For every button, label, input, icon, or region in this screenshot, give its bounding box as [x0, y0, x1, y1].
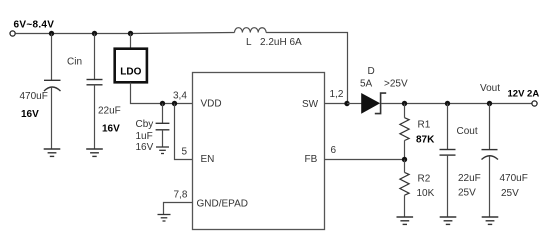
ground for 22uF	[86, 149, 103, 156]
junction 22uF tap	[92, 31, 97, 36]
svg-text:5A: 5A	[360, 79, 373, 90]
junction Cby tap	[160, 101, 165, 106]
junction FB node	[402, 157, 407, 162]
svg-text:R1: R1	[418, 120, 431, 131]
svg-text:16V: 16V	[136, 142, 154, 153]
svg-text:12V 2A: 12V 2A	[508, 88, 540, 99]
svg-text:LDO: LDO	[120, 67, 141, 78]
capacitor 470uF output	[482, 104, 499, 218]
junction SW node	[344, 101, 349, 106]
ground for Cout	[440, 217, 457, 224]
capacitor Cout 22uF	[440, 104, 456, 218]
svg-text:>25V: >25V	[384, 79, 408, 90]
svg-text:470uF: 470uF	[20, 91, 48, 102]
svg-text:3,4: 3,4	[173, 90, 187, 101]
junction divider tap	[402, 101, 407, 106]
junction EN tie	[172, 101, 177, 106]
svg-text:VDD: VDD	[201, 99, 222, 110]
wire EN tie to pin 5	[175, 104, 193, 160]
junction Cout tap	[445, 101, 450, 106]
svg-text:470uF: 470uF	[500, 173, 528, 184]
svg-text:25V: 25V	[458, 188, 476, 199]
svg-text:6V~8.4V: 6V~8.4V	[14, 20, 55, 31]
svg-text:L: L	[246, 37, 252, 48]
svg-text:2.2uH 6A: 2.2uH 6A	[260, 37, 302, 48]
junction 470uF tap	[487, 101, 492, 106]
wire FB pin to divider	[325, 159, 405, 161]
capacitor Cby 1uF	[156, 104, 170, 148]
resistor R2	[400, 160, 409, 218]
wire GND/EPAD	[164, 203, 193, 215]
capacitor Cin 470uF	[44, 34, 61, 150]
node Vout output terminal	[532, 101, 537, 106]
svg-text:Cby: Cby	[136, 119, 154, 130]
junction LDO tap	[128, 31, 133, 36]
capacitor 22uF input	[87, 34, 103, 150]
svg-text:D: D	[368, 66, 375, 77]
wire LDO input	[130, 34, 132, 49]
wire inductor-to-corner	[266, 33, 347, 104]
regulator U2 LDO	[115, 49, 147, 83]
wire SW pin to node	[325, 103, 348, 105]
ground for R2	[397, 217, 414, 224]
svg-text:10K: 10K	[417, 188, 435, 199]
svg-text:25V: 25V	[501, 188, 519, 199]
svg-text:5: 5	[182, 147, 188, 158]
svg-text:22uF: 22uF	[98, 106, 121, 117]
ground for Cin	[44, 149, 61, 156]
svg-text:Cin: Cin	[67, 57, 82, 68]
svg-text:SW: SW	[302, 99, 319, 110]
ground for 470uF	[482, 217, 499, 224]
svg-text:GND/EPAD: GND/EPAD	[197, 199, 249, 210]
inductor L	[235, 28, 267, 33]
svg-text:1uF: 1uF	[136, 131, 153, 142]
resistor R1	[400, 104, 409, 160]
svg-text:EN: EN	[201, 154, 215, 165]
svg-text:7,8: 7,8	[174, 190, 188, 201]
svg-text:16V: 16V	[102, 124, 120, 135]
wire LDO output to VDD	[131, 83, 193, 104]
svg-text:22uF: 22uF	[458, 173, 481, 184]
ground for GND/EPAD	[158, 215, 171, 222]
svg-text:87K: 87K	[416, 135, 435, 146]
svg-text:Vout: Vout	[480, 83, 500, 94]
junction Cin tap	[49, 31, 54, 36]
op-amp U1 converter IC	[193, 73, 325, 230]
diode D schottky	[362, 93, 387, 114]
wire top rail	[15, 33, 234, 34]
svg-text:R2: R2	[418, 174, 431, 185]
svg-text:1,2: 1,2	[330, 89, 344, 100]
svg-text:6: 6	[331, 145, 337, 156]
svg-text:16V: 16V	[21, 109, 39, 120]
node VIN input terminal	[10, 31, 15, 36]
wire SW node to diode	[347, 103, 362, 105]
svg-text:FB: FB	[305, 154, 318, 165]
wire output rail	[381, 103, 532, 105]
svg-text:Cout: Cout	[457, 126, 478, 137]
ground for Cby	[156, 147, 169, 154]
